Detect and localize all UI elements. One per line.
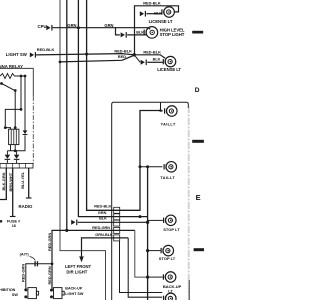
node junction B/blk bbox=[146, 221, 149, 224]
connector light sw bbox=[30, 52, 36, 58]
svg-text:RED: RED bbox=[118, 54, 126, 59]
wire to high level stop light bbox=[127, 34, 146, 36]
wire CPU GRN horizontal y=27 bbox=[53, 28, 120, 35]
svg-text:RADIO: RADIO bbox=[19, 204, 34, 209]
node junction B taillt2 bbox=[146, 165, 149, 168]
svg-text:BLU-YEL: BLU-YEL bbox=[20, 171, 25, 188]
svg-text:CPU: CPU bbox=[38, 24, 47, 29]
svg-text:LIGHT SW: LIGHT SW bbox=[6, 52, 28, 57]
connector high level stop light bbox=[121, 32, 127, 38]
wire stub to lower license connector bbox=[134, 55, 140, 63]
wire RED-BLK from light sw bbox=[36, 54, 134, 55]
svg-text:TAILLT: TAILLT bbox=[161, 122, 176, 127]
node junction bus1/red bbox=[59, 61, 62, 64]
wire bus2 vertical x=66.8 bbox=[66, 0, 68, 230]
svg-text:GRN: GRN bbox=[98, 211, 107, 215]
wire jog into coil bbox=[5, 128, 10, 130]
switch back-up light bbox=[50, 289, 53, 292]
wire GRN over to high level stop light bbox=[116, 28, 151, 30]
lamp back-up lt bbox=[163, 272, 176, 283]
svg-text:BRN-WHT: BRN-WHT bbox=[8, 172, 13, 191]
diode D1 (parallel coil) bbox=[24, 76, 26, 130]
lamp high level stop light bbox=[144, 27, 158, 39]
wire bottom feed into box bbox=[120, 241, 163, 293]
svg-text:BLK: BLK bbox=[136, 30, 144, 34]
node dot resistor a bbox=[20, 75, 23, 78]
wire switch to coil vertical x=15.2 bbox=[14, 91, 16, 130]
wire into back-up lt bbox=[148, 276, 163, 278]
svg-text:D: D bbox=[195, 87, 200, 94]
node dot tap bbox=[20, 108, 23, 111]
wire coil bottom to diodes bbox=[10, 145, 12, 151]
connector BLK wire bbox=[71, 220, 77, 226]
svg-text:GRN: GRN bbox=[104, 23, 113, 28]
lamp taillt1 bbox=[164, 106, 177, 117]
wire GRN-BLK drop inside box bbox=[128, 238, 162, 297]
node dot coil top left bbox=[4, 126, 7, 129]
svg-text:RED-BLK: RED-BLK bbox=[37, 47, 55, 52]
node junction bus4/red-blk bbox=[85, 53, 88, 56]
svg-text:RED-GRN: RED-GRN bbox=[47, 233, 52, 251]
lamp assembly box bbox=[112, 102, 189, 300]
connector A/T inline bbox=[34, 261, 35, 266]
svg-text:RED-GRN: RED-GRN bbox=[92, 226, 110, 230]
svg-text:RED-BLK: RED-BLK bbox=[143, 49, 161, 54]
lamp license light lower bbox=[163, 56, 176, 67]
wire into license light lower bbox=[147, 61, 163, 63]
marker dash mid right bbox=[192, 140, 204, 143]
node junction at/t tee bbox=[51, 262, 54, 265]
wire tail lamp feed from box top bbox=[160, 102, 162, 110]
connector cells at box entry bbox=[114, 207, 120, 241]
lamp box right edge bottom dark bbox=[188, 280, 190, 300]
lamp stop lt 1 bbox=[163, 215, 176, 226]
wire RED-BLK top license feed bbox=[135, 6, 179, 55]
node junction B/backup bbox=[146, 276, 149, 279]
relay box dash-dot edge bbox=[32, 96, 34, 163]
svg-text:(A/T): (A/T) bbox=[20, 251, 30, 256]
switch relay contact lever bbox=[2, 84, 15, 91]
marker dash top right bbox=[192, 31, 203, 34]
svg-text:TAILLT: TAILLT bbox=[160, 175, 175, 180]
svg-text:LICENSE LT: LICENSE LT bbox=[157, 67, 181, 72]
wire bus1 (thin) vertical x=60 bbox=[60, 0, 106, 300]
node junction bus2/red-grn bbox=[65, 229, 68, 232]
switch inhibition bbox=[24, 288, 27, 291]
lamp license light top bbox=[161, 7, 174, 18]
svg-text:BLK: BLK bbox=[153, 57, 161, 61]
wire bus3 vertical x=78.4 (GRN) bbox=[78, 0, 147, 217]
svg-text:FUSE #: FUSE # bbox=[7, 220, 21, 224]
wire A/T branch bbox=[26, 264, 52, 289]
wire GRN-BLK with left front dir branch bbox=[82, 238, 129, 257]
node junction red/red-blk merge bbox=[133, 53, 136, 56]
wire RED-GRN main horizontal bbox=[52, 230, 135, 289]
relay box outline bbox=[0, 68, 33, 96]
svg-text:GRN-BLK: GRN-BLK bbox=[95, 233, 113, 237]
wire into stop lt 2 bbox=[148, 250, 161, 252]
svg-text:BLK: BLK bbox=[154, 12, 162, 16]
wire RED-GRN drop inside box bbox=[135, 230, 148, 277]
svg-text:16: 16 bbox=[12, 224, 16, 228]
node junction taillt1 bbox=[159, 109, 162, 112]
svg-text:STOP LIGHT: STOP LIGHT bbox=[160, 32, 185, 37]
svg-text:RED-BLK: RED-BLK bbox=[114, 48, 132, 53]
wire taillt2 stub bbox=[140, 166, 162, 168]
wire BLK-GRN below strip bbox=[0, 168, 6, 200]
node junction A taillt2 bbox=[139, 165, 142, 168]
connector license light lower bbox=[141, 60, 147, 66]
wire RED from bus1 bbox=[60, 55, 134, 62]
wire into taillt1 bbox=[161, 110, 163, 112]
node junction bus3/CPU wire bbox=[77, 26, 80, 29]
connector strip (relay) bbox=[0, 163, 33, 168]
svg-text:RED-BLK: RED-BLK bbox=[94, 205, 111, 209]
lamp box right edge overlay (light) bbox=[187, 108, 189, 300]
node dot below coil bbox=[14, 149, 17, 152]
wire into license light top bbox=[146, 13, 161, 15]
wire red-blk to lower license bbox=[134, 55, 165, 59]
node junction A/grn bbox=[139, 215, 142, 218]
wire BRN-WHT below strip bbox=[12, 168, 14, 216]
svg-text:LIGHT SW: LIGHT SW bbox=[65, 292, 84, 296]
node switch contact bbox=[14, 89, 17, 92]
arrow to left front dir light bbox=[79, 256, 84, 262]
node junction B/stop2 bbox=[146, 249, 149, 252]
diode D2 bbox=[5, 155, 11, 159]
svg-text:RED-GRN: RED-GRN bbox=[47, 266, 52, 284]
marker dash lower right bbox=[194, 248, 204, 251]
svg-text:BLK-GRN: BLK-GRN bbox=[1, 172, 6, 190]
diode D3 bbox=[14, 155, 20, 159]
svg-text:STOP LT: STOP LT bbox=[159, 256, 176, 261]
wire bus4 vertical x=86.6 (RED-BLK) bbox=[87, 0, 161, 210]
lamp stop lt 2 bbox=[161, 245, 174, 256]
connector license light top bbox=[140, 11, 146, 17]
wire vertical B stop/backup feed bbox=[147, 167, 149, 300]
wire BLK horizontal bbox=[78, 221, 148, 223]
wire BLU-YEL below strip bbox=[28, 168, 30, 198]
lamp bottom (clipped) bbox=[163, 293, 176, 300]
svg-text:RED-BLK: RED-BLK bbox=[143, 1, 161, 6]
resistor R (antenna relay) bbox=[0, 74, 25, 79]
wire relay tap vertical x=21 bbox=[5, 76, 21, 128]
wire into stop lt 1 bbox=[148, 219, 163, 221]
svg-text:BACK-UP: BACK-UP bbox=[65, 287, 83, 291]
connector CPU bbox=[46, 25, 52, 31]
svg-text:DIR LIGHT: DIR LIGHT bbox=[66, 269, 87, 274]
svg-text:SW: SW bbox=[12, 293, 18, 297]
svg-text:NHIBITION: NHIBITION bbox=[0, 288, 16, 292]
svg-text:LICENSE LT: LICENSE LT bbox=[149, 19, 173, 24]
relay coil box bbox=[9, 129, 19, 144]
relay coil symbol bbox=[11, 129, 16, 144]
svg-text:BLK: BLK bbox=[99, 216, 107, 220]
svg-text:STOP LT: STOP LT bbox=[163, 227, 180, 232]
lamp taillt2 bbox=[164, 162, 177, 173]
node dot resistor b bbox=[24, 75, 27, 78]
svg-text:GRN: GRN bbox=[67, 23, 76, 28]
svg-text:RED-GRN: RED-GRN bbox=[21, 264, 26, 282]
leader A/T bbox=[30, 257, 36, 261]
node dot coil top right bbox=[14, 126, 17, 129]
svg-text:E: E bbox=[196, 193, 201, 202]
node switch pivot bbox=[0, 82, 3, 85]
